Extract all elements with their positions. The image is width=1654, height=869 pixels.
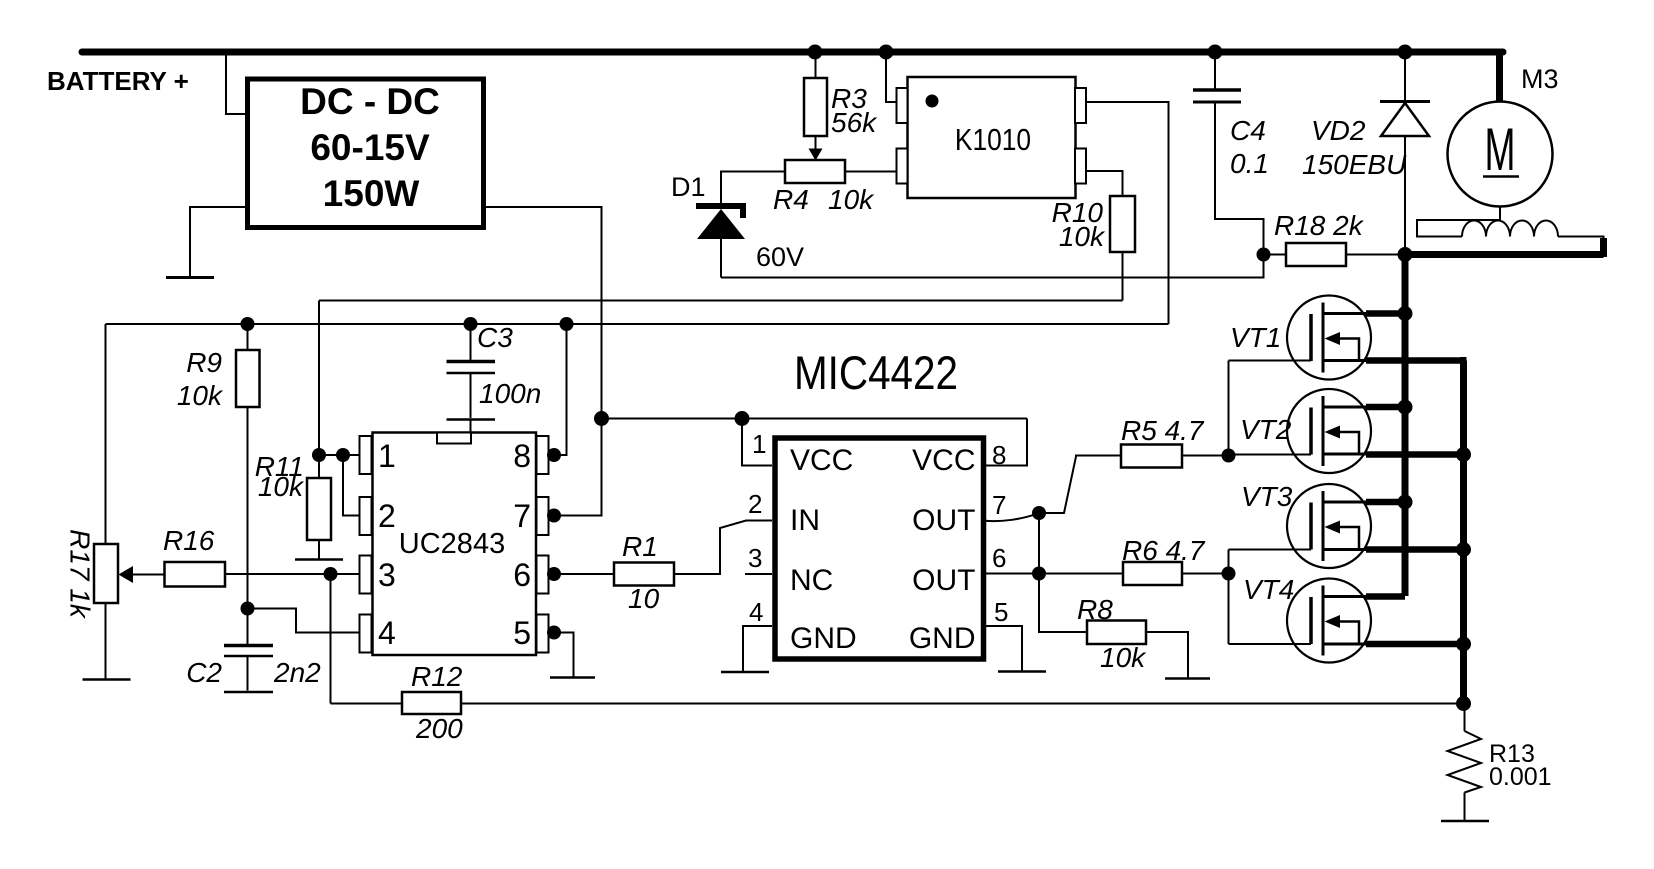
svg-text:R9: R9	[186, 347, 222, 378]
resistor R3	[815, 52, 817, 78]
svg-text:M: M	[1485, 116, 1516, 183]
svg-text:DC - DC: DC - DC	[300, 81, 440, 122]
svg-text:10k: 10k	[1059, 221, 1106, 252]
svg-text:R6 4.7: R6 4.7	[1122, 535, 1206, 566]
wire MIC pin6 to R6	[983, 573, 1123, 575]
optocoupler K1010	[908, 77, 1076, 198]
node drain dot VT1	[1398, 306, 1413, 321]
svg-text:1: 1	[378, 438, 396, 474]
svg-text:R18 2k: R18 2k	[1274, 210, 1365, 241]
svg-text:5: 5	[994, 597, 1008, 627]
svg-text:VT1: VT1	[1230, 322, 1281, 353]
pin 5 box UC	[537, 615, 549, 653]
svg-text:1: 1	[752, 429, 766, 459]
wire R16 to R17 wiper arrow	[130, 574, 165, 576]
pin 4 box UC	[360, 615, 372, 653]
svg-text:7: 7	[513, 498, 531, 534]
wire battery + top bus	[82, 49, 1503, 56]
transistor VT3	[1229, 481, 1464, 568]
ground R11	[318, 540, 320, 559]
svg-text:6: 6	[513, 557, 531, 593]
inductor motor choke	[1462, 221, 1558, 237]
ground R13	[1441, 820, 1489, 823]
svg-text:VT2: VT2	[1240, 414, 1292, 445]
svg-text:OUT: OUT	[912, 504, 975, 537]
svg-text:0.001: 0.001	[1489, 763, 1552, 791]
svg-text:4: 4	[749, 597, 763, 627]
svg-text:2: 2	[378, 498, 396, 534]
wire feedback vertical to R11	[318, 301, 320, 479]
svg-text:VT3: VT3	[1241, 481, 1293, 512]
svg-text:R1: R1	[622, 531, 658, 562]
wire R10 to UC2843 pin1 (long feedback wire)	[319, 300, 1123, 302]
node junction dot bus/C4	[1208, 45, 1223, 60]
svg-text:GND: GND	[790, 622, 857, 655]
wire K1010 collector to VREF rail	[1086, 102, 1169, 324]
svg-text:7: 7	[992, 490, 1006, 520]
capacitor C3 100n	[470, 324, 472, 360]
wire bus to K1010 anode	[886, 52, 897, 102]
wire K1010 emitter to R10	[1086, 171, 1123, 196]
svg-text:3: 3	[748, 543, 762, 573]
wire DC-DC output to UC2843 pin7 (VCC)	[486, 207, 602, 516]
svg-text:60-15V: 60-15V	[310, 127, 430, 168]
svg-text:R8: R8	[1077, 594, 1113, 625]
transistor VT1	[1229, 296, 1467, 380]
wire thick drain bus	[1402, 255, 1409, 597]
resistor R1 10	[554, 573, 614, 575]
resistor R8 10k	[1039, 574, 1087, 633]
node dot UC pin7	[547, 509, 561, 523]
transistor VT4	[1229, 574, 1464, 663]
svg-text:OUT: OUT	[912, 564, 975, 597]
node dot C3 top	[464, 317, 478, 331]
svg-text:100n: 100n	[479, 378, 541, 409]
ground R8	[1165, 677, 1210, 680]
svg-text:6: 6	[992, 543, 1006, 573]
converter DC-DC box	[248, 79, 484, 228]
svg-text:GND: GND	[909, 622, 976, 655]
pin 6 box UC	[537, 556, 549, 594]
pin 1 box UC	[360, 436, 372, 474]
svg-text:2: 2	[748, 489, 762, 519]
node drain dot VT2	[1398, 400, 1413, 415]
wire MIC pin3 stub	[745, 573, 772, 575]
svg-text:C4: C4	[1230, 115, 1266, 146]
capacitor C2 2n2	[247, 609, 249, 645]
resistor R9 10k	[247, 324, 249, 350]
resistor R11 10k	[307, 478, 331, 540]
svg-text:8: 8	[513, 438, 531, 474]
svg-text:VCC: VCC	[912, 444, 975, 477]
svg-text:0.1: 0.1	[1230, 148, 1269, 179]
wire R5 output to VT1/VT2 gates	[1228, 361, 1230, 456]
wire D1 anode to R18 node	[721, 255, 1264, 278]
svg-text:200: 200	[415, 713, 463, 744]
svg-text:150W: 150W	[323, 173, 420, 214]
resistor R10	[1110, 196, 1135, 252]
wire UC pin1 tie	[319, 454, 360, 456]
ground MIC pin5	[983, 626, 1022, 671]
svg-text:R12: R12	[411, 661, 463, 692]
svg-text:56k: 56k	[831, 107, 878, 138]
wire pin3 down to R12	[330, 574, 332, 704]
svg-text:R17 1k: R17 1k	[65, 529, 96, 620]
wire C2 node to UC pin4	[248, 609, 360, 633]
svg-text:R5 4.7: R5 4.7	[1121, 415, 1205, 446]
node source dot VT4	[1456, 637, 1471, 652]
node junction dot bus/K1010	[879, 45, 894, 60]
ground UC pin5	[549, 633, 574, 678]
pin 3 box UC	[360, 556, 372, 594]
node dot VD2 bottom junction	[1398, 247, 1413, 262]
node dot UC pin6	[547, 567, 561, 581]
svg-text:150EBU: 150EBU	[1302, 149, 1407, 180]
resistor R13 0.001	[1464, 704, 1466, 732]
wire R6 output to VT3/VT4 gates	[1228, 550, 1230, 645]
node dot pin8 branch	[560, 317, 574, 331]
resistor R16	[165, 562, 226, 587]
ground DC-DC	[190, 207, 245, 277]
capacitor C4	[1214, 52, 1216, 89]
node dot R9 top	[241, 317, 255, 331]
potentiometer R17 1k	[105, 324, 107, 544]
svg-text:R4: R4	[773, 184, 809, 215]
node drain dot VT3	[1398, 495, 1413, 510]
node junction dot bus/R3	[808, 45, 823, 60]
wire UC pin1 to pin2	[343, 455, 360, 516]
wire MIC pin7 to pin6 tie	[1038, 513, 1040, 574]
node dot R13 top	[1456, 696, 1471, 711]
svg-text:M3: M3	[1521, 64, 1559, 94]
svg-text:D1: D1	[671, 172, 706, 202]
svg-text:10k: 10k	[1100, 642, 1147, 673]
svg-text:VCC: VCC	[790, 444, 853, 477]
svg-text:10: 10	[628, 583, 660, 614]
diode VD2 150EBU	[1404, 52, 1406, 255]
wire VREF rail (R17/R9/C3/pin8 to K1010)	[106, 323, 1169, 325]
svg-text:10k: 10k	[828, 184, 875, 215]
svg-text:K1010: K1010	[955, 123, 1031, 157]
node junction dot bus/VD2	[1398, 45, 1413, 60]
svg-text:R16: R16	[163, 525, 215, 556]
resistor R12 200	[331, 703, 1464, 705]
resistor R6 4.7	[1222, 567, 1236, 581]
wire R1 to MIC pin2	[674, 521, 772, 575]
potentiometer R4	[785, 160, 845, 183]
wire VCC rail to MIC pins 1 and 8	[602, 418, 1028, 420]
wire bus to DC-DC input	[226, 52, 246, 114]
node source dot VT3	[1456, 542, 1471, 557]
svg-text:5: 5	[513, 615, 531, 651]
pin 2 box UC	[360, 497, 372, 535]
svg-text:4: 4	[378, 615, 396, 651]
svg-text:VD2: VD2	[1311, 115, 1366, 146]
wire MIC pin7 to R5	[983, 513, 1039, 521]
pin 8 box UC	[537, 436, 549, 474]
wire thick motor return bus	[1405, 251, 1604, 258]
resistor R5 4.7	[1222, 449, 1236, 463]
wire motor to inductor	[1417, 207, 1500, 237]
wire UC pin8 to VREF rail	[549, 324, 567, 455]
resistor R18 2k	[1257, 248, 1271, 262]
node source dot VT2	[1456, 447, 1471, 462]
svg-text:3: 3	[378, 557, 396, 593]
svg-text:60V: 60V	[756, 242, 804, 272]
chip UC2843	[373, 433, 537, 656]
svg-text:BATTERY +: BATTERY +	[47, 66, 189, 96]
wire UC pin3 net	[225, 573, 360, 575]
ground MIC pin4	[743, 626, 772, 672]
svg-text:10k: 10k	[177, 380, 224, 411]
svg-text:C2: C2	[186, 657, 222, 688]
svg-text:IN: IN	[790, 504, 820, 537]
svg-text:NC: NC	[790, 564, 833, 597]
svg-text:C3: C3	[477, 322, 513, 353]
svg-text:VT4: VT4	[1243, 574, 1294, 605]
svg-text:UC2843: UC2843	[399, 528, 505, 560]
svg-text:MIC4422: MIC4422	[794, 347, 958, 400]
ground R17	[105, 603, 107, 679]
pin 7 box UC	[537, 497, 549, 535]
svg-text:10k: 10k	[258, 471, 305, 502]
transistor VT2	[1229, 389, 1464, 473]
wire thick source bus	[1464, 361, 1467, 704]
svg-text:2n2: 2n2	[273, 657, 321, 688]
